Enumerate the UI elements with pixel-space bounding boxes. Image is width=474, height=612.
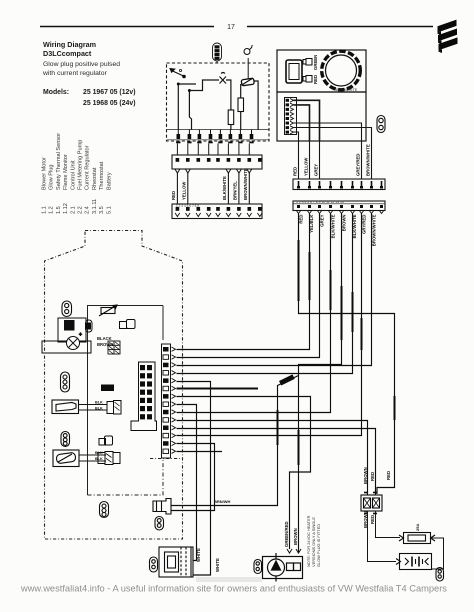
svg-text:RED: RED [313,75,318,84]
connector strip X1 [172,155,262,169]
svg-text:RED: RED [386,471,391,480]
svg-text:YELLOW: YELLOW [304,157,309,176]
svg-text:BLK/WHITE: BLK/WHITE [331,214,336,238]
sensor connector blocks [98,452,120,465]
glow plug wires [79,405,108,411]
wire relay right down [254,81,258,130]
pin 1 of regulator strip [177,130,179,135]
svg-text:BLK: BLK [95,407,103,411]
pin 4 [286,112,289,115]
svg-text:1.1: 1.1 [42,206,48,214]
svg-text:BLK: BLK [95,457,103,461]
node [188,89,191,92]
svg-text:GREY: GREY [314,164,319,176]
pin row 13 [163,441,169,446]
svg-text:BLK: BLK [95,401,103,405]
svg-text:www.westfaliat4.info - A usefu: www.westfaliat4.info - A useful informat… [20,584,447,594]
8-pin connector inside [285,98,297,135]
svg-text:GRY/RED: GRY/RED [362,215,367,234]
pin 6 [286,122,289,125]
3-pin oval connector 2 [61,432,70,447]
svg-text:BRN/WHITE: BRN/WHITE [336,88,358,92]
wire strip X1 to X2 [236,169,241,173]
strip X1 pin 7 [238,144,240,156]
svg-text:RED: RED [171,191,176,200]
25A fuse [399,533,435,544]
wire arrows into pump [287,549,292,553]
thick scan segments on verticals [278,240,395,465]
svg-text:Flame Monitor: Flame Monitor [63,154,69,190]
labels below fuse holder [363,511,375,528]
wire strip X1 to X2 [185,169,190,173]
strip X1 pin 3 [197,144,199,156]
svg-text:RED: RED [370,472,375,481]
wire pin2 down with jog [189,91,191,131]
pin row 2 [163,355,169,360]
svg-text:WHITE: WHITE [196,548,201,562]
scan smudge [196,577,262,582]
pin 8 [286,131,289,134]
3-pin oval connector bottom [100,502,109,518]
svg-text:Thermostat: Thermostat [99,161,105,190]
label BLACK/BROWN [97,336,113,347]
svg-text:3.1.11: 3.1.11 [92,199,98,214]
main harness wires [171,214,395,576]
small plug pair [120,320,136,329]
control unit 14-pin connector [162,344,171,458]
svg-text:17: 17 [227,24,235,31]
strip X1 pin 9 [258,158,262,162]
wire node to switch [177,83,180,86]
pin 2 [286,103,289,106]
thermostat 3.5 box upper [277,50,366,92]
svg-text:BROWN: BROWN [97,342,113,347]
svg-text:1.2: 1.2 [49,206,55,214]
svg-text:2.1: 2.1 [70,206,76,214]
svg-text:Current Regulator: Current Regulator [85,145,91,190]
pin 1 [286,99,289,102]
svg-text:1.12: 1.12 [63,203,69,214]
svg-text:D3LCcompact: D3LCcompact [43,49,92,58]
svg-text:BLACK: BLACK [97,336,112,341]
oval connector pump [254,560,262,574]
svg-text:25 1968 05 (24v): 25 1968 05 (24v) [83,100,136,107]
svg-text:GREY: GREY [320,214,325,226]
svg-text:Models:: Models: [43,89,69,96]
svg-text:+: + [79,332,82,338]
rotary dial [322,51,361,90]
legend [42,133,113,214]
relay coil diagonal component [241,78,254,86]
flame sensor curl symbol [244,45,252,55]
fuse holder block [361,493,382,514]
resistor R1 [228,110,234,125]
pin pill on box edge [86,320,93,332]
wire labels above fuse holder [363,467,391,484]
connector strip X2 [172,204,262,219]
svg-text:BROWN/WHITE: BROWN/WHITE [372,214,377,246]
wires inside thermostat box [294,100,320,141]
note text rotated [306,515,321,567]
thermostat 3.5 box lower [277,92,366,141]
pin row 9 [163,410,169,415]
heater unit outline [45,231,183,540]
svg-text:BROWN: BROWN [293,528,298,545]
wires thermostat to strip Y1 [293,141,372,179]
Eberspacher logo [438,20,458,53]
2-pin oval connector blower [62,301,72,317]
current regulator 2.4 box [167,63,270,141]
pin row 11 [163,426,169,431]
svg-text:with current regulator: with current regulator [42,70,108,77]
glow plug connector blocks [107,401,121,415]
svg-text:5.1: 5.1 [106,206,112,214]
pin row 14 [163,449,169,454]
connector strip Y2 [293,201,385,211]
plug RED [303,76,312,83]
svg-text:Wiring Diagram: Wiring Diagram [43,40,96,49]
pin row 3 [163,363,169,368]
connector strip Y1 [293,179,385,190]
svg-text:RED: RED [370,515,375,524]
display module [286,60,302,83]
strip X1 pin 2 [187,144,189,156]
wire strip X1 to X2 [247,169,252,173]
3-pin oval connector [61,372,70,392]
svg-text:3.5: 3.5 [99,206,105,214]
svg-text:RED: RED [299,215,304,224]
fuel metering pump 2.2 [263,553,303,582]
pin 5 of regulator strip [219,130,221,135]
safety thermal sensor 1.5 [53,450,79,467]
svg-text:2.2: 2.2 [78,206,84,214]
strip X1 pin 1 [176,144,178,156]
svg-text:Fuel Metering Pump: Fuel Metering Pump [78,140,84,190]
svg-text:25 1967 05 (12v): 25 1967 05 (12v) [83,89,136,96]
sensor wires [79,455,106,461]
top rule left [40,26,214,28]
connector plug 4-pin above box [213,43,222,61]
pin row 5 [163,378,169,383]
svg-text:YELLOW: YELLOW [181,181,186,200]
svg-text:BROWN: BROWN [342,215,347,232]
battery 5.1 [396,554,432,570]
trimmer resistor [99,305,117,316]
oval connector battery [436,568,444,582]
pin strip inside box bottom [167,129,270,131]
inner component box [88,306,164,496]
svg-text:GREEN/RED: GREEN/RED [284,521,289,547]
svg-text:Blower Motor: Blower Motor [42,157,48,190]
pin row 1 [163,347,169,352]
svg-text:BROWN/WHITE: BROWN/WHITE [243,168,248,200]
svg-text:BRN/WH: BRN/WH [214,499,231,504]
svg-text:2.4: 2.4 [85,206,91,214]
svg-text:GLOW PLUG IS FITTED: GLOW PLUG IS FITTED [316,524,321,567]
fuel pump connector block 2.2 [159,547,193,577]
strip X1 pin 6 [227,144,229,156]
thick row wire [177,388,259,390]
transistor symbol [220,73,227,84]
svg-text:WHITE: WHITE [215,558,220,572]
wire fuse to battery right [431,538,444,569]
svg-text:BRN/YEL: BRN/YEL [233,181,238,200]
pin 3 [286,108,289,111]
svg-text:Rheostat: Rheostat [92,167,98,190]
pin row 4 [163,371,169,376]
svg-text:Battery: Battery [106,172,112,190]
top rule right [247,26,433,28]
svg-text:25A: 25A [415,524,420,531]
svg-text:BLK/WHITE: BLK/WHITE [222,176,227,200]
svg-text:BROWN: BROWN [363,467,368,484]
svg-text:GREY/RED: GREY/RED [356,154,361,176]
wire fuse holder to battery (brown) [368,511,397,562]
svg-text:Glow Plug: Glow Plug [49,165,55,191]
small label block [101,385,114,392]
plug GREEN [303,59,312,66]
wire labels [284,521,298,547]
pin row 6 [163,386,169,391]
blower motor 1.1 [42,318,91,353]
pin row 7 [163,394,169,399]
pin row 8 [163,402,169,407]
svg-text:1.5: 1.5 [56,206,62,214]
flame monitor plug 1.12 [153,499,171,515]
oval connector below flame plug [155,517,164,531]
wire fuse holder to 25A fuse (red) [376,511,401,538]
strip X1 pin 5 [217,144,219,156]
svg-text:Control Unit: Control Unit [70,160,76,190]
wire strip X1 to X2 [226,169,231,173]
grid connector block [108,341,120,354]
pin row 12 [163,433,169,438]
2-pin oval connector right [377,116,385,133]
wire staircase to transistor [189,80,219,91]
wire pin1 up [177,84,179,130]
diagonal label BROWN [279,374,295,385]
connector tower [131,362,157,431]
strip X1 pin 8 [248,144,250,156]
oval connector pump left [150,557,158,572]
pin 6 of regulator strip [229,130,231,135]
pin 3 of regulator strip [198,130,200,135]
wire strip X1 to X2 [175,169,180,173]
pin row 10 [163,418,169,423]
pin 5 [286,117,289,120]
svg-text:1 2 3 4 5 6 7 8 9 10 11 12 13: 1 2 3 4 5 6 7 8 9 10 11 12 13 14 [296,200,344,204]
svg-text:GREEN: GREEN [313,55,318,70]
wire transistor to resistor R1 [226,80,231,110]
strip X1 pin 4 [208,144,210,156]
pin 2 of regulator strip [188,130,190,135]
switch S1 [170,69,185,78]
resistor R2 [238,98,244,112]
pin 7 [286,126,289,129]
small plug mid [99,436,113,445]
wire from flame sensor curl down [247,58,249,79]
glow plug 1.2 [52,400,79,414]
control unit dash bottom [150,458,182,460]
pin 8 of regulator strip [251,130,253,135]
pin 7 of regulator strip [239,130,241,135]
WHITE labels [196,548,220,572]
svg-text:BROWN/WHITE: BROWN/WHITE [366,144,371,176]
svg-text:RED: RED [293,167,298,176]
svg-text:Safety Thermal Sensor: Safety Thermal Sensor [56,133,62,190]
svg-text:Glow plug positive pulsed: Glow plug positive pulsed [43,61,120,68]
pin 4 of regulator strip [210,130,212,135]
